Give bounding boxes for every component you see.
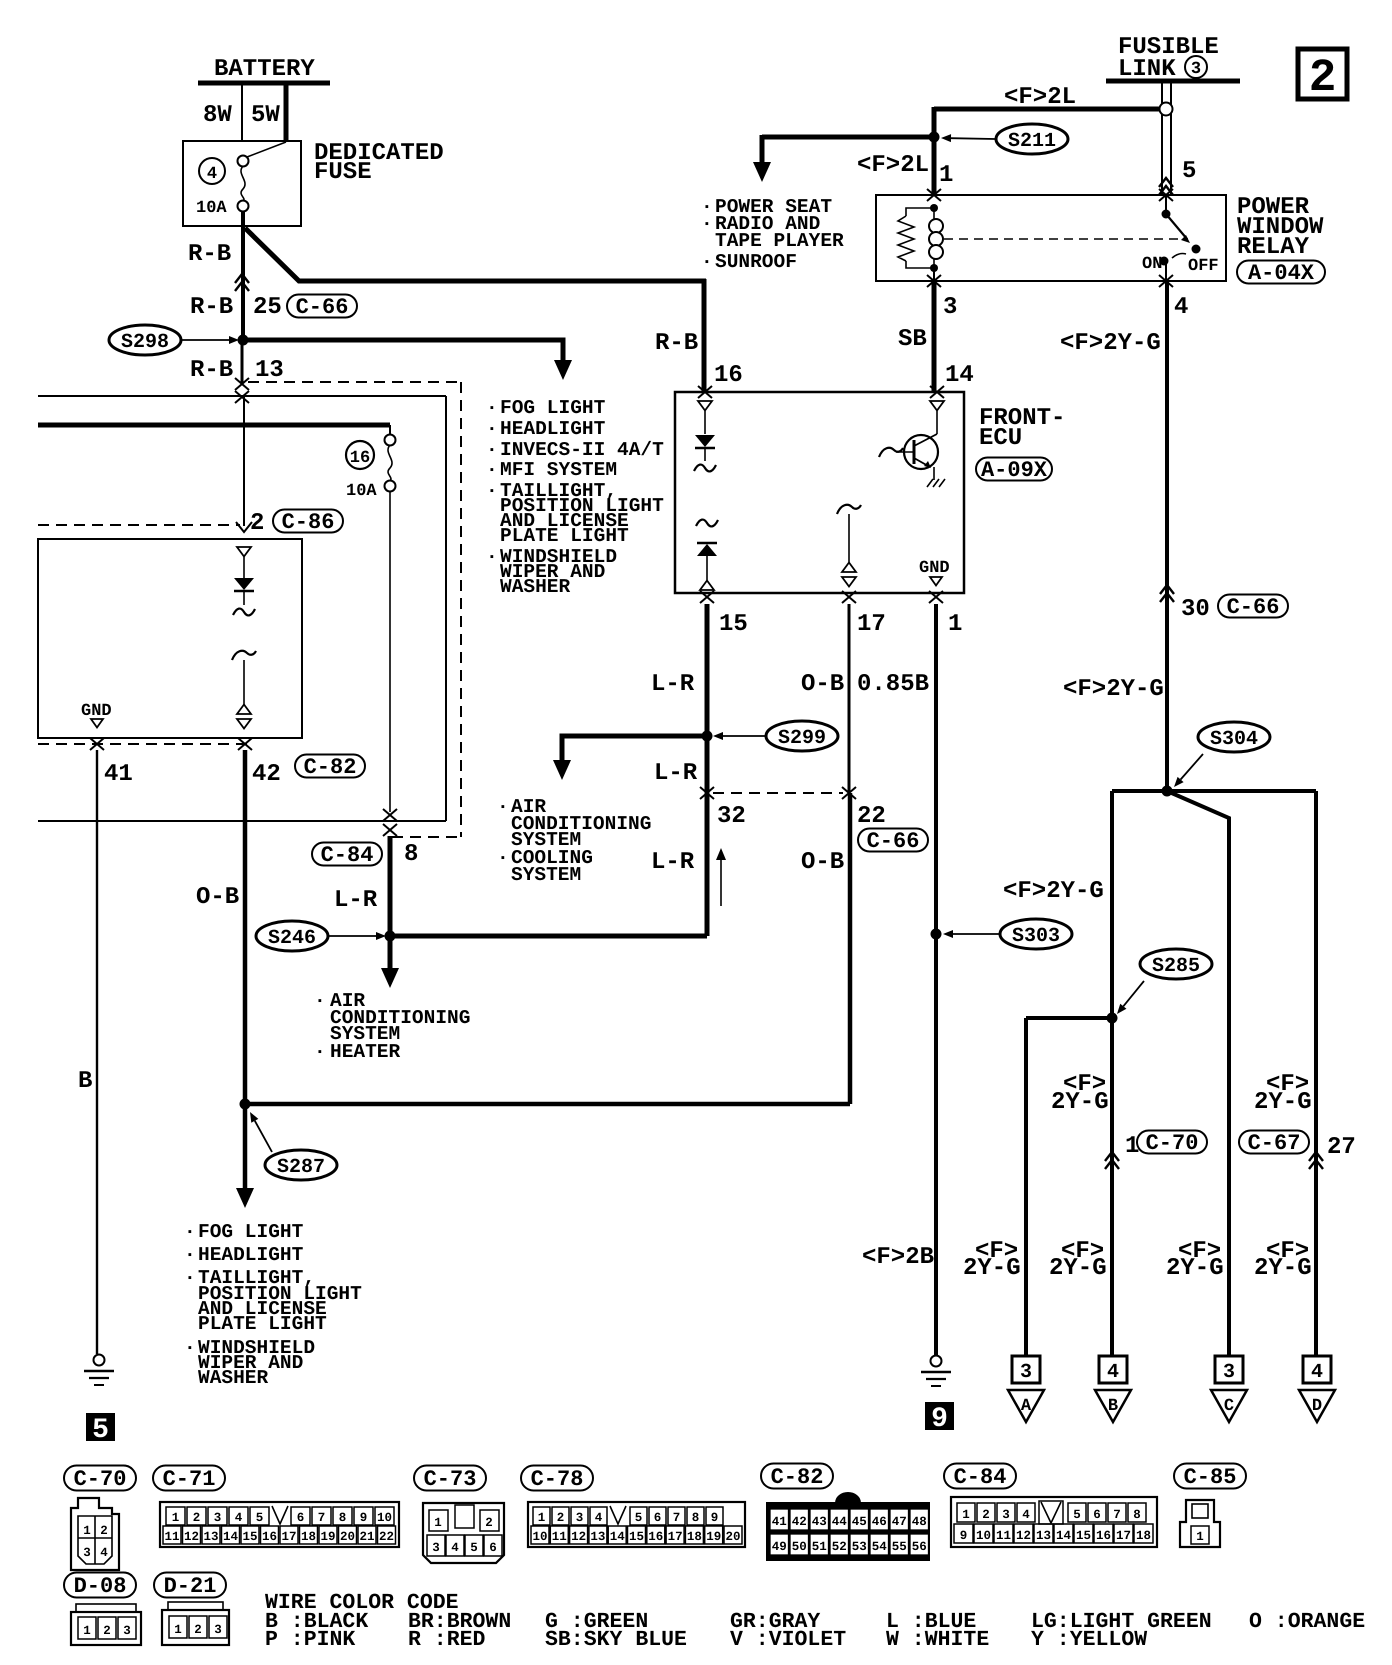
svg-text:·: · xyxy=(486,439,498,461)
diode inside left module xyxy=(234,578,254,590)
dashed connector line C-66 middle xyxy=(713,792,843,794)
svg-text:42: 42 xyxy=(252,761,281,788)
svg-text:O :ORANGE: O :ORANGE xyxy=(1249,1610,1365,1634)
internal continuation squiggle xyxy=(233,609,255,616)
connector label C-84 xyxy=(312,843,382,866)
svg-text:9: 9 xyxy=(711,1511,719,1525)
svg-text:2: 2 xyxy=(103,1624,111,1638)
chevron wire 15 at C-66 xyxy=(700,787,714,799)
junction node S246 xyxy=(385,931,396,942)
pin 42 terminal triangles xyxy=(237,705,251,715)
svg-text:7: 7 xyxy=(673,1511,681,1525)
svg-text:1: 1 xyxy=(948,611,962,638)
junction node S303 xyxy=(931,929,942,940)
svg-text:SYSTEM: SYSTEM xyxy=(511,864,581,886)
svg-text:·: · xyxy=(486,397,498,419)
svg-text:2: 2 xyxy=(557,1511,565,1525)
svg-text:1: 1 xyxy=(434,1516,442,1530)
svg-text:47: 47 xyxy=(892,1515,907,1529)
legend connector C-78 xyxy=(528,1502,745,1547)
diode D1 inside ECU xyxy=(695,435,715,447)
wire fuse 16 down xyxy=(389,491,391,812)
svg-text:3: 3 xyxy=(432,1541,440,1555)
svg-text:V :VIOLET: V :VIOLET xyxy=(730,1628,846,1652)
pin 17 internal curl xyxy=(837,505,861,514)
svg-text:S304: S304 xyxy=(1210,728,1258,751)
ground ref 9 box xyxy=(925,1402,954,1430)
svg-text:11: 11 xyxy=(164,1530,179,1544)
wire branch C diagonal from S304 xyxy=(1167,791,1229,1356)
svg-text:2: 2 xyxy=(1309,52,1337,104)
svg-text:53: 53 xyxy=(852,1540,867,1554)
squiggle above diode D2 xyxy=(696,520,718,527)
wire branch D down from S304 xyxy=(1314,791,1318,1356)
wire L-R to air conditioning xyxy=(388,936,393,968)
svg-text:·: · xyxy=(314,990,326,1012)
svg-text:19: 19 xyxy=(320,1530,335,1544)
destination triangle B xyxy=(1095,1390,1131,1422)
ECU pin 16 entry chevron xyxy=(698,386,712,398)
svg-text:5: 5 xyxy=(470,1541,478,1555)
svg-text:·: · xyxy=(486,459,498,481)
svg-text:4: 4 xyxy=(235,1511,243,1525)
svg-text:FOG LIGHT: FOG LIGHT xyxy=(198,1221,304,1243)
svg-text:6: 6 xyxy=(654,1511,662,1525)
svg-text:2Y-G: 2Y-G xyxy=(1049,1255,1107,1282)
svg-text:B: B xyxy=(78,1068,92,1095)
svg-text:<F>2Y-G: <F>2Y-G xyxy=(1063,676,1164,703)
svg-text:41: 41 xyxy=(772,1515,787,1529)
svg-text:R-B: R-B xyxy=(655,330,698,357)
wire L-R horizontal to pin 15 xyxy=(390,934,707,939)
svg-text:45: 45 xyxy=(852,1515,867,1529)
junction node S304 xyxy=(1162,786,1173,797)
pin 2 terminal triangle xyxy=(237,547,251,557)
diode D2 inside ECU xyxy=(697,544,717,556)
svg-text:C-66: C-66 xyxy=(1227,595,1280,620)
relay internal wire pin5 xyxy=(1165,195,1167,214)
current direction arrow xyxy=(720,856,722,906)
svg-text:A-04X: A-04X xyxy=(1248,261,1315,286)
terminal box 3 wire C xyxy=(1215,1356,1243,1383)
svg-text:C-84: C-84 xyxy=(321,843,374,868)
svg-text:30: 30 xyxy=(1181,596,1210,623)
svg-text:5: 5 xyxy=(635,1511,643,1525)
transistor Q1 inside ECU xyxy=(904,435,938,469)
svg-text:19: 19 xyxy=(706,1530,721,1544)
connector chevron on R-B wire xyxy=(235,274,249,283)
legend connector C-71 xyxy=(160,1502,399,1547)
svg-text:4: 4 xyxy=(1107,1361,1119,1384)
svg-text:49: 49 xyxy=(772,1540,787,1554)
fusible link hollow wire xyxy=(1161,83,1163,195)
svg-text:46: 46 xyxy=(872,1515,887,1529)
svg-text:4: 4 xyxy=(1174,294,1188,321)
fuse 16 10A xyxy=(346,441,374,469)
svg-text:3: 3 xyxy=(1191,60,1201,79)
pin 42 chevron xyxy=(238,738,252,750)
svg-text:·: · xyxy=(701,213,713,235)
svg-text:1: 1 xyxy=(939,162,953,189)
svg-text:22: 22 xyxy=(857,803,886,830)
legend label C-73 xyxy=(414,1466,486,1491)
svg-text:SB:SKY BLUE: SB:SKY BLUE xyxy=(545,1628,687,1652)
connector label A-04X xyxy=(1237,261,1325,284)
connector label C-66 xyxy=(287,295,357,318)
svg-text:9: 9 xyxy=(931,1404,948,1435)
svg-text:50: 50 xyxy=(792,1540,807,1554)
svg-text:13: 13 xyxy=(255,357,284,384)
svg-text:17: 17 xyxy=(1116,1529,1131,1543)
svg-text:HEATER: HEATER xyxy=(330,1041,401,1063)
legend connector C-85 xyxy=(1180,1500,1220,1547)
svg-text:2: 2 xyxy=(250,510,264,537)
legend label C-82 xyxy=(761,1464,833,1489)
svg-text:<F>2B: <F>2B xyxy=(862,1244,934,1271)
svg-text:8W: 8W xyxy=(203,102,232,129)
svg-text:3: 3 xyxy=(943,294,957,321)
legend label D-08 xyxy=(64,1573,136,1598)
junction node S299 xyxy=(702,731,713,742)
legend label C-84 xyxy=(944,1464,1016,1489)
svg-text:FOG LIGHT: FOG LIGHT xyxy=(500,397,606,419)
svg-text:48: 48 xyxy=(912,1515,927,1529)
svg-text:2Y-G: 2Y-G xyxy=(1254,1089,1312,1116)
svg-text:4: 4 xyxy=(100,1546,108,1560)
svg-text:6: 6 xyxy=(489,1541,497,1555)
wire B ground pin 41 xyxy=(96,750,98,1354)
svg-text:·: · xyxy=(497,847,509,869)
pin 15 terminal xyxy=(700,581,714,591)
wire R-B fuse to front-ECU pin 16 xyxy=(245,228,706,281)
svg-text:FUSE: FUSE xyxy=(314,159,372,186)
svg-text:RELAY: RELAY xyxy=(1237,234,1310,261)
connector label C-70 wire B xyxy=(1137,1131,1207,1154)
svg-text:PLATE LIGHT: PLATE LIGHT xyxy=(500,525,629,547)
svg-text:C-78: C-78 xyxy=(531,1467,584,1492)
wire L-R branch to air conditioning xyxy=(562,736,707,762)
svg-text:WASHER: WASHER xyxy=(198,1367,269,1389)
svg-text:C-84: C-84 xyxy=(954,1465,1007,1490)
junction node S285 xyxy=(1107,1013,1118,1024)
svg-text:·: · xyxy=(184,1267,196,1289)
svg-text:18: 18 xyxy=(1136,1529,1151,1543)
svg-text:3: 3 xyxy=(123,1624,131,1638)
svg-text:O-B: O-B xyxy=(801,849,844,876)
svg-text:·: · xyxy=(497,796,509,818)
wire O-B pin 17 down xyxy=(848,604,851,793)
svg-text:·: · xyxy=(184,1221,196,1243)
svg-text:20: 20 xyxy=(340,1530,355,1544)
svg-text:·: · xyxy=(314,1041,326,1063)
svg-text:1: 1 xyxy=(172,1511,180,1525)
svg-text:6: 6 xyxy=(1093,1508,1101,1522)
svg-text:L-R: L-R xyxy=(651,671,695,698)
svg-text:10: 10 xyxy=(532,1530,547,1544)
svg-text:R-B: R-B xyxy=(190,294,233,321)
svg-text:1: 1 xyxy=(174,1623,182,1637)
svg-text:O-B: O-B xyxy=(196,884,239,911)
fusible link number 3 circle xyxy=(1185,56,1207,78)
internal switch curl xyxy=(232,651,256,660)
svg-text:P :PINK: P :PINK xyxy=(265,1628,355,1652)
svg-text:L-R: L-R xyxy=(651,849,695,876)
relay pin 4 chevron xyxy=(1159,275,1173,287)
svg-text:21: 21 xyxy=(359,1530,374,1544)
svg-text:1: 1 xyxy=(83,1524,91,1538)
wire L-R 32 down xyxy=(705,793,710,936)
svg-text:43: 43 xyxy=(812,1515,827,1529)
dashed connector line C-86 xyxy=(38,524,240,526)
svg-text:3: 3 xyxy=(1020,1361,1032,1384)
svg-text:C-73: C-73 xyxy=(424,1467,477,1492)
svg-text:11: 11 xyxy=(552,1530,567,1544)
svg-text:GND: GND xyxy=(919,559,950,578)
svg-text:2Y-G: 2Y-G xyxy=(1166,1255,1224,1282)
wire O-B 22 down to S287 line xyxy=(848,793,853,1104)
svg-text:B: B xyxy=(1108,1397,1118,1416)
junction node S298 xyxy=(238,335,249,346)
svg-text:15: 15 xyxy=(1076,1529,1091,1543)
wire O-B from pin 42 xyxy=(243,750,248,1104)
svg-text:C-86: C-86 xyxy=(282,510,335,535)
svg-text:1: 1 xyxy=(83,1624,91,1638)
svg-text:8: 8 xyxy=(404,841,418,868)
svg-text:27: 27 xyxy=(1327,1134,1356,1161)
legend connector C-84 xyxy=(951,1497,1157,1547)
destination triangle C xyxy=(1211,1390,1247,1422)
svg-text:8: 8 xyxy=(692,1511,700,1525)
connector C-86 entry arrow pin 2 xyxy=(236,522,252,532)
svg-text:<F>2L: <F>2L xyxy=(857,152,929,179)
svg-text:13: 13 xyxy=(590,1530,605,1544)
battery bus bar xyxy=(198,81,330,86)
ground symbol left xyxy=(94,1355,105,1366)
wire 2Y-G horizontal at S304 xyxy=(1112,789,1316,793)
svg-text:10A: 10A xyxy=(346,482,377,501)
svg-text:R :RED: R :RED xyxy=(408,1628,486,1652)
chevron on F2Y-G wire xyxy=(1160,585,1174,594)
svg-text:2Y-G: 2Y-G xyxy=(963,1255,1021,1282)
relay contact dashed actuator line xyxy=(944,238,1188,240)
dashed connector line C-82 xyxy=(38,743,248,745)
svg-text:Y :YELLOW: Y :YELLOW xyxy=(1031,1628,1147,1652)
legend label D-21 xyxy=(154,1573,226,1598)
svg-text:L-R: L-R xyxy=(334,887,378,914)
wire F2L branch to power seat radio sunroof xyxy=(762,135,934,140)
dashed boundary C-86/C-84 top xyxy=(248,381,461,383)
svg-text:L-R: L-R xyxy=(654,760,698,787)
svg-text:PLATE LIGHT: PLATE LIGHT xyxy=(198,1313,327,1335)
svg-text:1: 1 xyxy=(538,1511,546,1525)
svg-text:55: 55 xyxy=(892,1540,907,1554)
svg-text:3: 3 xyxy=(1002,1508,1010,1522)
junction node S211 xyxy=(929,132,940,143)
ground symbol right xyxy=(931,1356,942,1367)
connector label C-82 xyxy=(295,755,365,778)
svg-text:12: 12 xyxy=(184,1530,199,1544)
svg-text:13: 13 xyxy=(203,1530,218,1544)
svg-text:25: 25 xyxy=(253,294,282,321)
svg-text:16: 16 xyxy=(1096,1529,1111,1543)
svg-text:44: 44 xyxy=(832,1515,848,1529)
page number 2 box xyxy=(1298,49,1347,99)
svg-text:4: 4 xyxy=(1022,1508,1030,1522)
svg-text:W :WHITE: W :WHITE xyxy=(886,1628,989,1652)
wire O-B horizontal to S287 xyxy=(245,1102,850,1107)
svg-text:7: 7 xyxy=(318,1511,326,1525)
svg-text:·: · xyxy=(486,480,498,502)
ECU pin 1 exit chevron xyxy=(929,591,943,603)
relay pin 3 chevron xyxy=(927,275,941,287)
svg-text:BATTERY: BATTERY xyxy=(214,56,315,83)
svg-text:17: 17 xyxy=(668,1530,683,1544)
connector label C-66 right xyxy=(1218,595,1288,618)
svg-text:32: 32 xyxy=(717,803,746,830)
svg-text:14: 14 xyxy=(610,1530,626,1544)
legend label C-71 xyxy=(153,1466,225,1491)
svg-text:A: A xyxy=(1021,1397,1032,1416)
wire 0.85B pin 1 down xyxy=(934,604,938,1355)
connector double chevron on wire 13 xyxy=(235,378,249,390)
svg-text:SUNROOF: SUNROOF xyxy=(715,251,797,273)
svg-text:11: 11 xyxy=(996,1529,1011,1543)
junction node S287 xyxy=(240,1099,251,1110)
svg-text:C-71: C-71 xyxy=(163,1467,216,1492)
legend connector D-08 xyxy=(71,1612,141,1645)
svg-text:·: · xyxy=(184,1337,196,1359)
squiggle below diode D1 xyxy=(694,465,716,472)
svg-text:7: 7 xyxy=(1113,1508,1121,1522)
connector label C-66 middle xyxy=(858,829,928,852)
svg-text:R-B: R-B xyxy=(188,241,231,268)
svg-text:14: 14 xyxy=(223,1530,239,1544)
svg-text:C-85: C-85 xyxy=(1184,1465,1237,1490)
svg-text:C-70: C-70 xyxy=(1146,1131,1199,1156)
relay switch xyxy=(1162,210,1171,219)
relay pin 1 chevron xyxy=(927,189,941,201)
ECU pin 15 exit chevron xyxy=(700,591,714,603)
connector label A-09X xyxy=(976,458,1052,481)
fuse element 10A xyxy=(238,156,249,167)
svg-text:4: 4 xyxy=(207,165,217,184)
svg-text:4: 4 xyxy=(1311,1361,1323,1384)
svg-text:S246: S246 xyxy=(268,927,316,950)
legend connector D-21 xyxy=(162,1610,229,1645)
svg-text:INVECS-II 4A/T: INVECS-II 4A/T xyxy=(500,439,664,461)
terminal box 4 wire B xyxy=(1099,1356,1127,1383)
relay coil and resistor xyxy=(930,204,938,212)
wire thick to fuse 16 xyxy=(38,423,390,428)
svg-text:22: 22 xyxy=(379,1530,394,1544)
svg-text:20: 20 xyxy=(725,1530,740,1544)
svg-text:15: 15 xyxy=(629,1530,644,1544)
splice S285 xyxy=(1140,949,1212,979)
svg-text:18: 18 xyxy=(687,1530,702,1544)
svg-text:18: 18 xyxy=(301,1530,316,1544)
svg-text:3: 3 xyxy=(214,1511,222,1525)
svg-text:42: 42 xyxy=(792,1515,807,1529)
svg-text:S285: S285 xyxy=(1152,955,1200,978)
fusible link bus bar xyxy=(1106,79,1240,84)
chevron on fusible link wire xyxy=(1159,178,1173,187)
splice S298 xyxy=(109,325,181,355)
svg-text:10: 10 xyxy=(377,1511,392,1525)
svg-text:0.85B: 0.85B xyxy=(857,671,929,698)
svg-text:17: 17 xyxy=(281,1530,296,1544)
svg-text:3: 3 xyxy=(576,1511,584,1525)
svg-text:16: 16 xyxy=(262,1530,277,1544)
svg-text:3: 3 xyxy=(1223,1361,1235,1384)
pin 16 terminal xyxy=(698,401,712,411)
dashed boundary right xyxy=(460,382,462,837)
svg-text:ECU: ECU xyxy=(979,425,1022,452)
svg-text:13: 13 xyxy=(1036,1529,1051,1543)
destination triangle A xyxy=(1008,1390,1044,1422)
svg-text:D-21: D-21 xyxy=(164,1574,217,1599)
splice S246 xyxy=(256,921,328,951)
svg-text:D-08: D-08 xyxy=(74,1574,127,1599)
legend connector C-70 xyxy=(71,1498,119,1570)
wire O-B arrow to lighting systems xyxy=(243,1104,248,1190)
wire F2L horizontal xyxy=(934,107,1160,112)
svg-text:S303: S303 xyxy=(1012,925,1060,948)
legend label C-78 xyxy=(521,1466,593,1491)
chevron wire D xyxy=(1309,1152,1323,1161)
svg-text:2Y-G: 2Y-G xyxy=(1254,1255,1312,1282)
svg-text:14: 14 xyxy=(945,362,974,389)
svg-text:4: 4 xyxy=(595,1511,603,1525)
svg-text:2Y-G: 2Y-G xyxy=(1051,1089,1109,1116)
svg-text:6: 6 xyxy=(297,1511,305,1525)
front-ECU box xyxy=(675,392,964,593)
svg-text:15: 15 xyxy=(242,1530,257,1544)
svg-text:2: 2 xyxy=(982,1508,990,1522)
svg-text:10: 10 xyxy=(976,1529,991,1543)
svg-text:MFI SYSTEM: MFI SYSTEM xyxy=(500,459,617,481)
left module box xyxy=(38,539,302,738)
svg-text:15: 15 xyxy=(719,611,748,638)
svg-text:1: 1 xyxy=(1196,1530,1204,1544)
svg-text:A-09X: A-09X xyxy=(981,458,1048,483)
svg-text:16: 16 xyxy=(714,362,743,389)
svg-text:C: C xyxy=(1224,1397,1234,1416)
svg-text:·: · xyxy=(486,418,498,440)
connector label C-86 xyxy=(273,510,343,533)
svg-text:O-B: O-B xyxy=(801,671,844,698)
svg-text:3: 3 xyxy=(214,1623,222,1637)
fuse number 4 circle xyxy=(199,158,225,184)
svg-text:TAPE PLAYER: TAPE PLAYER xyxy=(715,230,844,252)
svg-text:17: 17 xyxy=(857,611,886,638)
svg-text:16: 16 xyxy=(648,1530,663,1544)
svg-text:C-82: C-82 xyxy=(304,755,357,780)
wire R-B branch to fog light systems xyxy=(243,340,563,362)
splice S299 xyxy=(766,721,838,751)
pin 41 chevron xyxy=(90,738,104,750)
svg-text:S299: S299 xyxy=(778,727,826,750)
svg-text:41: 41 xyxy=(104,761,133,788)
splice S303 xyxy=(1000,919,1072,949)
svg-text:C-70: C-70 xyxy=(74,1467,127,1492)
svg-text:ON: ON xyxy=(1142,255,1162,274)
svg-text:D: D xyxy=(1312,1397,1322,1416)
svg-text:51: 51 xyxy=(812,1540,827,1554)
legend label C-70 xyxy=(64,1466,136,1491)
svg-text:12: 12 xyxy=(1016,1529,1031,1543)
svg-text:8: 8 xyxy=(1133,1508,1141,1522)
svg-text:3: 3 xyxy=(83,1546,91,1560)
